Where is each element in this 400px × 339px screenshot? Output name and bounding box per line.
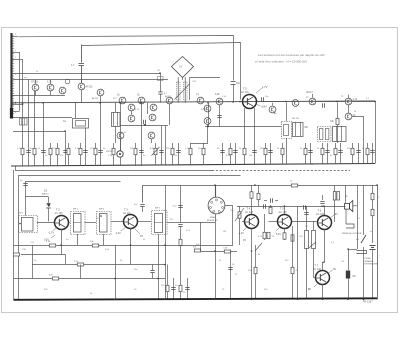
- IF amp transistor right 1: [309, 98, 316, 105]
- resistor: [304, 148, 307, 154]
- svg-text:MICRO: MICRO: [106, 151, 114, 153]
- variable capacitor gang CV1: [177, 82, 181, 100]
- svg-text:6,8k: 6,8k: [215, 93, 220, 96]
- capacitor: [178, 205, 182, 207]
- diamond tuning indicator: [172, 57, 194, 78]
- transistor stage 2: [47, 84, 54, 91]
- wire T3 emitter down: [130, 228, 132, 245]
- 7-pin module socket: [208, 197, 225, 214]
- wire to T3: [111, 221, 125, 223]
- svg-text:4,7k: 4,7k: [47, 81, 52, 84]
- dashed MF box right: [318, 127, 332, 142]
- transistor: [204, 105, 211, 112]
- capacitor: [139, 150, 143, 152]
- capacitor: [171, 287, 175, 289]
- wire rail y126.5: [205, 126, 281, 128]
- wire lower left edge: [13, 170, 15, 300]
- transistor: [128, 115, 135, 122]
- svg-text:osc: osc: [24, 77, 27, 79]
- svg-text:EXTERIEURE: EXTERIEURE: [365, 264, 378, 266]
- wire diamond stem: [182, 77, 184, 80]
- svg-text:a l'aide d'un voltmetre : H =: a l'aide d'un voltmetre : H = 20 000 Ω/V: [255, 60, 307, 64]
- transistor T1: [32, 84, 39, 91]
- resistor: [33, 148, 36, 154]
- svg-text:FR.1257: FR.1257: [363, 301, 373, 304]
- transistor T5a: [278, 215, 292, 229]
- svg-text:AF116: AF116: [86, 86, 94, 89]
- svg-text:AC 128: AC 128: [313, 268, 322, 271]
- svg-text:CV: CV: [179, 66, 183, 69]
- capacitor: [338, 150, 342, 152]
- resistor: [67, 148, 70, 154]
- transistor stage 4: [97, 89, 104, 96]
- converter transistor T5 (big): [243, 95, 257, 109]
- capacitor: [308, 150, 312, 152]
- wire rail y254: [21, 254, 65, 256]
- capacitor: [98, 150, 102, 152]
- transistor: [149, 114, 156, 121]
- svg-text:AC 125: AC 125: [55, 212, 64, 215]
- wire MF1 out: [85, 222, 97, 224]
- capacitor: [178, 224, 182, 226]
- resistor: [179, 239, 182, 245]
- wire link rail y181: [26, 182, 121, 216]
- driver transformer windings: [305, 231, 309, 249]
- wire left col x28: [28, 80, 30, 144]
- earphone jack circle: [117, 151, 123, 157]
- capacitor: [185, 287, 189, 289]
- wire tap row y73: [13, 73, 161, 75]
- transistor T7: [316, 271, 330, 285]
- wire rail y278.5: [14, 278, 166, 280]
- resistor: [371, 193, 374, 199]
- capacitor: [143, 120, 145, 124]
- svg-text:TR: TR: [305, 226, 308, 228]
- jack symbol: [357, 251, 367, 254]
- resistor: [154, 148, 157, 154]
- svg-text:PRISE: PRISE: [365, 258, 372, 260]
- wire left col x19.5: [19, 52, 21, 111]
- resistor: [94, 148, 97, 154]
- resistor: [229, 148, 232, 154]
- mixer row transistors: [119, 97, 126, 104]
- resistor: [267, 232, 270, 238]
- svg-text:T 5: T 5: [243, 87, 247, 91]
- capacitor: [140, 204, 144, 206]
- svg-text:AA119: AA119: [42, 193, 49, 196]
- capacitor: [217, 115, 221, 117]
- svg-text:-9V: -9V: [333, 268, 337, 271]
- wire lower top rail y185: [143, 186, 378, 300]
- cap above T5a: [270, 198, 272, 202]
- svg-text:MF 1: MF 1: [19, 213, 25, 215]
- resistor: [49, 148, 52, 154]
- capacitor: [176, 150, 180, 152]
- svg-text:-1,7V: -1,7V: [48, 231, 54, 235]
- capacitor: [41, 150, 45, 152]
- resistor: [166, 285, 169, 291]
- transistor: [150, 104, 157, 111]
- wire gang leads: [177, 77, 179, 82]
- wire upper ground bus y164.5: [11, 164, 375, 167]
- capacitor: [252, 150, 256, 152]
- wire T2 collector: [68, 222, 71, 224]
- resistor: [79, 148, 82, 154]
- bottom bus ticks: [114, 298, 364, 300]
- resistor: [321, 148, 324, 154]
- wire rail y264.5: [32, 264, 165, 266]
- capacitor: [325, 150, 329, 152]
- diode between stages: [303, 205, 305, 209]
- wire T7 base from transformer: [314, 277, 316, 279]
- svg-text:FREQ.: FREQ.: [210, 217, 217, 219]
- capacitor: [26, 150, 30, 152]
- wire x215 down: [215, 222, 217, 300]
- capacitor: [370, 150, 374, 152]
- switch symbol on x25.5: [23, 183, 27, 185]
- feedback network center lower: [200, 251, 237, 253]
- svg-text:AF 116: AF 116: [241, 91, 249, 94]
- wire stems upper transistors: [36, 80, 101, 103]
- resistor: [92, 244, 98, 247]
- pot with arrow mid lower: [255, 243, 262, 251]
- voltage label -0,8V: [256, 104, 260, 106]
- coupling box left: [20, 118, 28, 125]
- resistor on rail y185: [291, 184, 297, 187]
- transistor T4: [245, 215, 259, 229]
- volume potentiometer: [239, 206, 241, 245]
- wire socket down: [215, 214, 217, 222]
- solid MF box right: [333, 127, 347, 142]
- wire left col x22.5: [22, 59, 24, 143]
- svg-text:T 3: T 3: [124, 208, 128, 212]
- svg-text:T 7: T 7: [315, 264, 319, 268]
- transistor: [138, 97, 145, 104]
- resistor: [336, 118, 339, 124]
- capacitor on bus at 262: [261, 97, 263, 101]
- wire rail 2: [82, 43, 241, 100]
- detector cap x180: [180, 185, 182, 223]
- svg-text:AF116: AF116: [92, 97, 99, 100]
- junction dots upper: [15, 72, 376, 165]
- resistor: [366, 148, 369, 154]
- capacitor: [220, 150, 224, 152]
- svg-text:MF: MF: [305, 126, 309, 129]
- svg-text:MODULAT.: MODULAT.: [207, 219, 218, 222]
- svg-text:1,7V: 1,7V: [262, 85, 268, 89]
- cap at 322,203: [320, 201, 324, 203]
- resistors below T4-T5: [264, 214, 266, 240]
- lower right resistor column x167-193: [168, 265, 188, 300]
- wire rail y117.5: [13, 117, 72, 119]
- resistor: [269, 207, 272, 213]
- transistor: [117, 132, 124, 139]
- svg-text:9V: 9V: [140, 235, 143, 238]
- transistor: [197, 97, 204, 104]
- wire rail y96: [11, 95, 65, 97]
- resistor: [112, 148, 115, 154]
- svg-text:1M: 1M: [223, 231, 226, 233]
- IF box A: [73, 119, 89, 129]
- transistor: [166, 97, 173, 104]
- diode: [46, 203, 50, 208]
- capacitor: [304, 212, 308, 214]
- resistor on right rail top: [372, 185, 374, 243]
- svg-text:Les tensions ont ete mesurees: Les tensions ont ete mesurees par rappor…: [258, 53, 325, 57]
- svg-text:T 5: T 5: [280, 207, 284, 211]
- svg-text:1,5k: 1,5k: [201, 108, 206, 111]
- capacitor: [158, 92, 162, 94]
- switch Int: [361, 235, 366, 243]
- wire MF1 bottom lead: [77, 234, 79, 245]
- ferrite antenna bar L1: [12, 33, 23, 119]
- IF amp transistor right 3: [345, 113, 352, 120]
- resistor: [334, 148, 337, 154]
- pot arrow lower mid: [308, 242, 316, 249]
- left col labels lower: [22, 249, 289, 276]
- svg-text:AF 116: AF 116: [123, 212, 131, 215]
- svg-text:MF 3: MF 3: [99, 209, 105, 211]
- wire link rail y175: [19, 176, 241, 300]
- resistor: [291, 235, 294, 241]
- voltage label T2: [53, 227, 57, 231]
- antenna input transformer box: [19, 216, 38, 233]
- junction dots lower: [60, 184, 378, 279]
- IF transformer MF1: [71, 212, 86, 235]
- bottom heavy bus: [14, 298, 378, 300]
- svg-text:PRISE ECOUTEUR: PRISE ECOUTEUR: [342, 233, 362, 235]
- diode D1: [26, 196, 49, 198]
- coupling caps between T4 T5: [263, 204, 265, 208]
- svg-text:5,2V: 5,2V: [276, 233, 281, 236]
- resistor: [291, 267, 294, 273]
- svg-text:AF117: AF117: [165, 95, 172, 98]
- resistor: [263, 232, 266, 238]
- diode AGC small: [322, 103, 324, 107]
- capacitor: [63, 150, 67, 152]
- resistor: [257, 193, 260, 199]
- resistor: [56, 148, 59, 154]
- wire main bus y102.5: [11, 101, 375, 103]
- resistor h zigzag left: [13, 253, 19, 256]
- svg-text:-0,8V: -0,8V: [261, 105, 267, 109]
- wire rail y245: [14, 245, 234, 247]
- transistor: [204, 118, 211, 125]
- transistor: [148, 132, 155, 139]
- IF filter box 2: [97, 212, 112, 235]
- capacitor C2 on rail2: [79, 45, 85, 84]
- svg-text:MF 4: MF 4: [155, 208, 161, 210]
- resistor: [264, 148, 267, 154]
- resistor: [134, 148, 137, 154]
- svg-text:AC 125: AC 125: [245, 211, 254, 214]
- resistor: [283, 233, 286, 239]
- oscillator padder cap: [160, 73, 162, 92]
- speaker: [345, 201, 358, 212]
- capacitor: [268, 150, 272, 152]
- capacitor: [159, 150, 163, 152]
- resistor x337: [337, 103, 339, 143]
- svg-text:AF115: AF115: [31, 81, 39, 84]
- wire left col x34: [34, 91, 36, 143]
- wire box to T2: [37, 222, 55, 224]
- resistor h on y245: [49, 244, 55, 247]
- capacitor on x219.5: [219, 105, 221, 127]
- upper resistor/cap row: [23, 103, 373, 166]
- resistor h on y264.5: [77, 263, 83, 266]
- lower verticals: [33, 185, 166, 300]
- resistor: [202, 148, 205, 154]
- svg-text:0V: 0V: [243, 239, 246, 242]
- resistor: [243, 148, 246, 154]
- small circle device right of T5: [269, 106, 276, 113]
- resistor on x208: [208, 103, 210, 127]
- wire x292.5 down: [292, 226, 294, 300]
- svg-text:AC 125: AC 125: [279, 211, 288, 214]
- tiny value labels upper row: [17, 148, 365, 157]
- resistor: [224, 250, 230, 253]
- svg-text:T 2: T 2: [56, 208, 60, 212]
- wire T2 emitter down: [61, 229, 63, 245]
- resistor: [189, 148, 192, 154]
- transistor stage 3: [78, 83, 85, 90]
- svg-text:MF 455: MF 455: [292, 118, 300, 120]
- svg-text:Int.: Int.: [356, 238, 359, 241]
- cap x230 lower: [230, 251, 232, 300]
- capacitor on x233 drop: [231, 82, 236, 85]
- wire lower audio rail y206: [237, 206, 346, 208]
- small device: [65, 79, 70, 84]
- transistor T2: [55, 216, 69, 230]
- wire MF4 out right: [167, 222, 181, 224]
- wire left col x43: [43, 103, 45, 143]
- svg-text:9V: 9V: [353, 274, 356, 278]
- IF preamp transistor: [292, 100, 299, 107]
- wire T3 collector: [138, 221, 152, 223]
- wire rail x255 link: [251, 185, 253, 206]
- voltage label +1,7V: [256, 88, 262, 93]
- cap on y278.5: [150, 270, 154, 272]
- resistor: [371, 209, 374, 215]
- solid filter box mid: [293, 123, 304, 137]
- wire MF3 bottom lead: [103, 234, 105, 245]
- output transformer windings: [333, 192, 336, 201]
- wire x255 down: [255, 245, 257, 300]
- wire MF4 down: [158, 234, 160, 300]
- svg-text:AF117: AF117: [306, 91, 314, 94]
- svg-text:T 4: T 4: [247, 207, 251, 211]
- wire tap row y79.5: [13, 79, 168, 81]
- wire right loop: [352, 102, 376, 164]
- capacitor: [83, 150, 87, 152]
- svg-text:40p: 40p: [236, 82, 241, 85]
- transistor T3: [124, 215, 138, 229]
- transistor small mid: [59, 87, 66, 94]
- IF box B: [112, 112, 121, 127]
- capacitor: [233, 150, 237, 152]
- wire top rail: [19, 36, 234, 81]
- wire x324-x322 connect: [323, 262, 325, 264]
- wire rail y131: [13, 131, 65, 133]
- IF amp transistor right 2: [345, 98, 352, 105]
- svg-text:AC 128: AC 128: [316, 213, 325, 216]
- svg-text:MF 2: MF 2: [73, 209, 79, 211]
- resistor: [250, 192, 253, 198]
- svg-text:-1,3V: -1,3V: [238, 232, 244, 235]
- dashed filter box mid: [282, 122, 292, 139]
- resistor: [21, 148, 24, 154]
- capacitor: [356, 150, 360, 152]
- resistor: [351, 148, 354, 154]
- resistor: [254, 267, 257, 273]
- svg-text:4,7k: 4,7k: [353, 98, 358, 101]
- resistor: [238, 212, 241, 218]
- resistor h on y278.5: [52, 277, 58, 280]
- transistor: [216, 98, 223, 105]
- svg-text:T 6: T 6: [318, 209, 322, 213]
- wire socket stem: [215, 185, 217, 197]
- resistor: [281, 148, 284, 154]
- wire cluster rail y125: [120, 125, 168, 127]
- wire speaker columns: [345, 185, 347, 203]
- capacitor: [228, 267, 232, 269]
- transistor T6: [318, 216, 332, 230]
- svg-text:-1,2V: -1,2V: [115, 232, 121, 235]
- resistor: [179, 285, 182, 291]
- battery diode: [348, 249, 350, 270]
- wire link rail y170: [16, 167, 213, 171]
- multivibrator cluster transistors: [128, 104, 135, 111]
- resistor: [171, 148, 174, 154]
- resistor: [194, 249, 200, 252]
- IF transformer MF4: [152, 211, 168, 235]
